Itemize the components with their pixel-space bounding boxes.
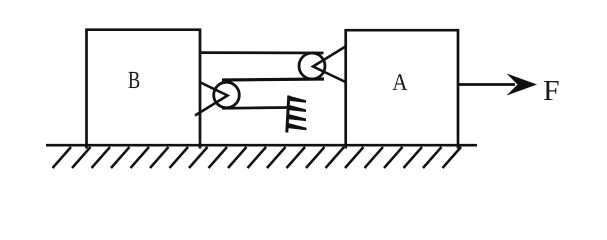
wire middle rope between pulleys bbox=[222, 79, 324, 80]
ground line bbox=[46, 144, 477, 147]
block B bbox=[87, 30, 201, 149]
anchor fixed support vertical bar bbox=[287, 96, 289, 133]
label B bbox=[129, 72, 140, 88]
force arrow F head bbox=[507, 74, 538, 96]
force arrow F shaft bbox=[458, 83, 515, 86]
pulley P1 lower circle bbox=[214, 82, 240, 108]
label A bbox=[393, 74, 408, 90]
bracket upper pulley to block A bbox=[313, 47, 346, 83]
pulley P2 upper circle bbox=[299, 53, 325, 79]
anchor hatch 3 bbox=[288, 114, 306, 121]
block A bbox=[346, 30, 458, 148]
wire top rope B to upper pulley bbox=[200, 51, 324, 54]
ground hatching bbox=[53, 147, 462, 168]
anchor hatch 1 bbox=[289, 96, 307, 103]
wire bottom rope lower pulley to anchor bbox=[222, 106, 288, 110]
bracket lower pulley to block B bbox=[195, 83, 228, 116]
anchor hatch 4 bbox=[288, 123, 307, 130]
anchor hatch 2 bbox=[288, 105, 306, 112]
label F bbox=[544, 81, 559, 100]
